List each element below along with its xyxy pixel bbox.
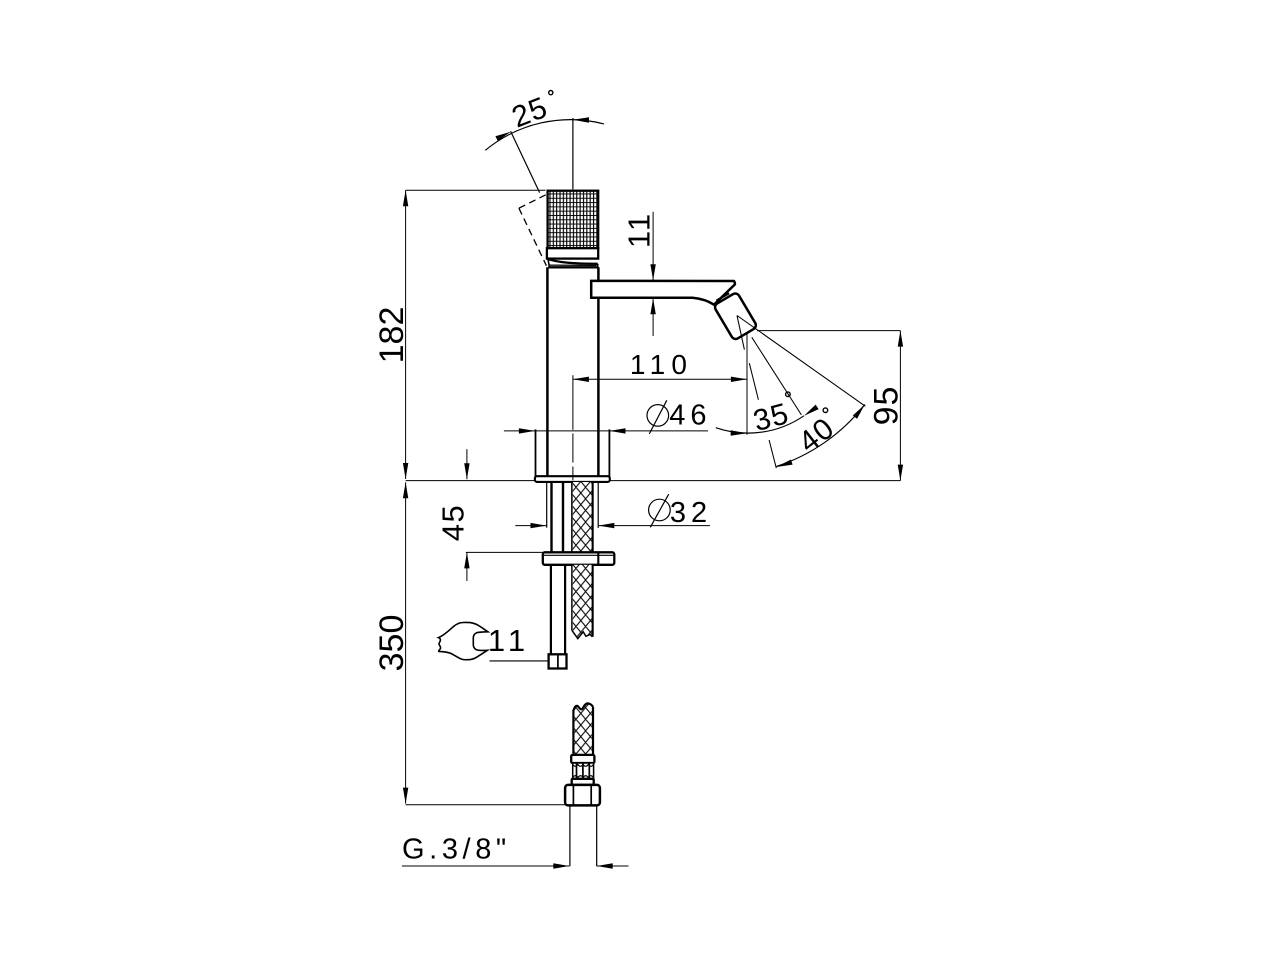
svg-text:32: 32 xyxy=(670,497,712,529)
svg-text:G.3/8": G.3/8" xyxy=(402,834,511,866)
svg-text:182: 182 xyxy=(373,307,411,364)
svg-text:350: 350 xyxy=(373,615,411,672)
svg-text:11: 11 xyxy=(488,623,530,658)
svg-text:110: 110 xyxy=(630,349,693,380)
svg-text:11: 11 xyxy=(621,212,656,248)
svg-text:46: 46 xyxy=(669,400,711,432)
svg-text:45: 45 xyxy=(436,504,471,541)
svg-text:95: 95 xyxy=(868,386,906,426)
